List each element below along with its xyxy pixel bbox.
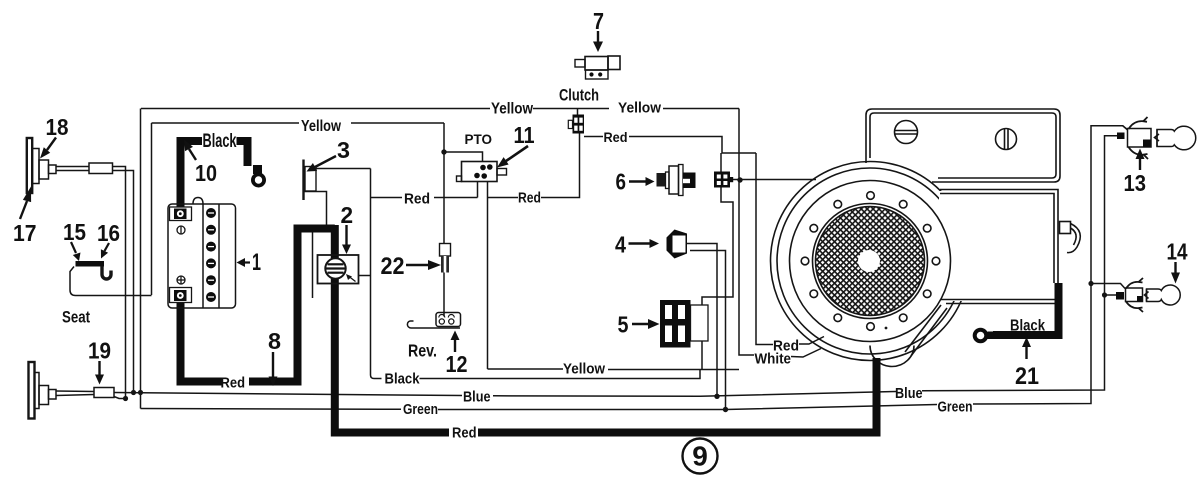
wire: key switch 3 to solenoid vertical: [316, 168, 371, 170]
flywheel bolt holes x12: [801, 192, 940, 331]
headlight inline connector: [89, 163, 113, 174]
svg-text:Yellow: Yellow: [618, 100, 661, 117]
svg-text:Red: Red: [518, 191, 541, 207]
svg-text:9: 9: [692, 441, 708, 472]
junction dot blue bus / connector 4: [714, 394, 719, 399]
reverse switch 12: [436, 313, 461, 327]
flywheel hub white circle: [858, 250, 880, 272]
wire: fuse 5 bottom to yellow bus: [701, 341, 703, 370]
wire: Yellow top down to White engine lead: [739, 109, 754, 356]
svg-text:19: 19: [88, 338, 111, 364]
battery cell separators: [202, 204, 204, 308]
battery vent bump: [193, 198, 203, 205]
small dot on flywheel band: [885, 327, 888, 330]
svg-text:13: 13: [1124, 170, 1147, 196]
wire: connector 4 upper lead to Blue bus: [686, 244, 717, 397]
svg-text:Yellow: Yellow: [563, 362, 606, 378]
headlight 18: [27, 138, 32, 193]
key switch 3: [302, 160, 304, 201]
wire: PTO right pin down to Yellow bottom bus: [487, 182, 489, 370]
engine connector (4 pin): [714, 172, 730, 188]
svg-text:Red: Red: [604, 129, 628, 145]
svg-text:1: 1: [252, 249, 261, 276]
svg-text:12: 12: [446, 351, 468, 377]
wire: lamp 13 upper diagonal: [1123, 126, 1128, 130]
junction dot engine connector line: [737, 177, 742, 182]
svg-text:21: 21: [1015, 363, 1039, 390]
svg-text:3: 3: [337, 137, 350, 163]
battery screw bottom: [177, 276, 185, 284]
battery screw top: [177, 226, 185, 234]
wire: inner yellow loop top: [152, 122, 300, 124]
thick black ground wire 21: [993, 283, 1059, 335]
wire: Blue bus: [114, 393, 462, 396]
svg-text:22: 22: [381, 253, 405, 280]
svg-text:2: 2: [341, 202, 354, 228]
battery cell caps: [206, 208, 216, 302]
flywheel screen ring inner: [813, 204, 928, 319]
wire: Red from PTO right pin to clutch connector: [488, 197, 519, 199]
svg-text:Blue: Blue: [895, 386, 923, 402]
wire: key switch 3 lower lead: [304, 192, 327, 227]
engine shroud box (top right): [866, 109, 1060, 182]
svg-text:17: 17: [13, 220, 37, 246]
svg-text:11: 11: [514, 122, 535, 148]
wire: branch to PTO top pin: [444, 152, 483, 162]
svg-text:7: 7: [593, 8, 604, 34]
thick red bus to engine starter: [478, 358, 877, 433]
svg-text:Black: Black: [1010, 318, 1045, 335]
thick wire through solenoid down to main red bus: [331, 225, 339, 259]
connector 4: [667, 230, 688, 259]
ring terminal of wire 10: [253, 165, 264, 186]
svg-text:10: 10: [195, 160, 217, 186]
wire: connector 4 lower lead to Green bus: [690, 251, 726, 410]
wire: seat switch lead: [70, 267, 152, 296]
svg-text:Black: Black: [203, 131, 237, 152]
svg-text:Rev.: Rev.: [408, 341, 437, 361]
svg-text:4: 4: [615, 232, 626, 258]
thick red battery cable 8 to solenoid: [181, 302, 223, 382]
svg-text:Red: Red: [221, 376, 246, 392]
wire: Yellow bottom bus: [488, 368, 564, 370]
solenoid small arrow: [349, 277, 356, 282]
engine cylinder terminal with curved hose (right side): [1060, 222, 1071, 234]
PTO switch 11: [462, 162, 498, 182]
svg-text:14: 14: [1167, 239, 1188, 265]
engine lower box: [940, 190, 1058, 284]
shroud screw right (vertical slot): [996, 129, 1017, 150]
fuse block 5: [660, 300, 691, 348]
wire: Red clutch to engine connector: [584, 136, 603, 138]
wire: engine connector top pin stub: [720, 153, 722, 172]
solenoid 2 contact circle: [325, 258, 345, 278]
wire: Green bus: [141, 408, 402, 411]
svg-text:8: 8: [268, 328, 281, 354]
junction dots lamp 19: [131, 390, 136, 395]
battery + terminal (top left): [170, 207, 192, 221]
wire: solenoid bracket line: [312, 232, 314, 298]
svg-text:White: White: [755, 351, 792, 368]
wire: Red from solenoid vertical to PTO left pin: [371, 197, 403, 199]
thick black wire 10 from battery + terminal: [181, 141, 203, 207]
engine lower box mask: [939, 191, 1056, 301]
fuse 22: [440, 244, 451, 257]
wire: engine connector nub to engine: [731, 179, 817, 181]
lamp 19 inline connector: [94, 388, 114, 398]
svg-text:Yellow: Yellow: [491, 101, 534, 118]
svg-text:PTO: PTO: [465, 132, 493, 147]
wire: headlight 18 leads: [56, 166, 89, 168]
junction dot yellow/PTO: [441, 149, 446, 154]
svg-text:5: 5: [618, 312, 629, 338]
junction dot green bus / connector 4: [723, 407, 728, 412]
svg-text:18: 18: [46, 114, 69, 140]
svg-text:Green: Green: [403, 402, 438, 418]
clutch connector (4 pin): [573, 115, 585, 134]
junction dot lamp 14 green: [1088, 281, 1093, 286]
engine blower housing inner rim circle: [777, 168, 963, 354]
wire: lamp 14 branch from Green riser: [1091, 284, 1125, 289]
wire: lamp 14 branch from Blue riser: [1105, 294, 1117, 296]
clutch coil 7: [575, 60, 585, 68]
svg-text:Red: Red: [404, 192, 430, 208]
svg-text:Black: Black: [385, 372, 421, 388]
lamp socket 13: [1129, 121, 1148, 129]
label 9 circle: [683, 439, 718, 474]
ignition switch 6: [657, 173, 667, 187]
svg-text:6: 6: [616, 169, 627, 195]
bulb 13: [1157, 126, 1196, 150]
flywheel screen crosshatch disc: [816, 207, 925, 316]
wire: outer harness left edge down to lamp junction: [140, 109, 142, 409]
wire: outer harness top (Yellow): [141, 108, 490, 110]
bulb 14: [1147, 285, 1181, 305]
wire: Red engine lead: [756, 153, 773, 345]
svg-text:16: 16: [97, 220, 120, 246]
ring terminal of wire 21: [975, 330, 995, 342]
wire: clutch connector top stub: [577, 109, 579, 115]
tail lamp 19: [29, 362, 35, 419]
seat switch 15/16: [76, 261, 105, 267]
junction dot lamp 14 blue: [1102, 292, 1107, 297]
svg-text:Green: Green: [938, 400, 973, 416]
wire: engine connector bottom to fuse 5: [702, 188, 733, 306]
wire: inner yellow right vertical to PTO/fuse/rev: [443, 123, 445, 244]
svg-text:Seat: Seat: [62, 309, 90, 327]
battery - terminal (bottom left): [170, 288, 192, 303]
flywheel screen ring outer: [790, 181, 951, 342]
engine blower housing outer circle: [771, 162, 970, 361]
wire: lamp 19 leads: [56, 390, 94, 393]
shroud screw left (horizontal slot): [895, 121, 918, 144]
svg-text:Blue: Blue: [463, 390, 491, 406]
wire: Black bus from key switch line: [371, 169, 382, 379]
lamp socket 14: [1126, 282, 1143, 289]
svg-text:Yellow: Yellow: [301, 118, 342, 135]
solenoid 2 box: [318, 255, 359, 284]
svg-text:15: 15: [63, 219, 86, 245]
battery 1 outline: [168, 204, 236, 308]
wire: inner yellow left edge: [151, 123, 153, 295]
engine starter bump under housing: [870, 346, 914, 367]
svg-text:Red: Red: [452, 426, 477, 442]
wire: solenoid S-terminal stub: [359, 275, 371, 277]
svg-text:Clutch: Clutch: [559, 86, 599, 105]
